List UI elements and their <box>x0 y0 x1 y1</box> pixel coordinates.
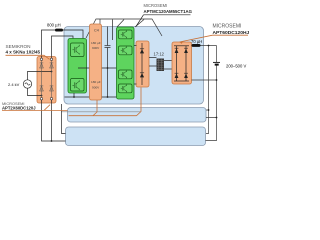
svg-text:180 µF: 180 µF <box>91 41 101 45</box>
svg-text:SEMIKRON: SEMIKRON <box>6 44 31 49</box>
svg-text:2.4 kV: 2.4 kV <box>8 82 20 87</box>
svg-text:MICROSEMI: MICROSEMI <box>144 3 168 8</box>
svg-text:200–500 V: 200–500 V <box>226 64 246 69</box>
svg-text:900V: 900V <box>92 85 100 89</box>
svg-text:800 µH: 800 µH <box>47 23 61 28</box>
svg-text:17:12: 17:12 <box>154 52 165 57</box>
svg-text:180 µF: 180 µF <box>91 80 101 84</box>
svg-text:C4: C4 <box>94 29 99 33</box>
svg-text:MICROSEMI: MICROSEMI <box>213 24 242 30</box>
svg-text:4 x SKNa 102/45: 4 x SKNa 102/45 <box>6 50 41 55</box>
svg-text:APT2X60DC120J: APT2X60DC120J <box>2 105 36 110</box>
svg-text:900V: 900V <box>92 46 100 50</box>
svg-text:APTMC120AM55CT1AG: APTMC120AM55CT1AG <box>144 9 193 14</box>
